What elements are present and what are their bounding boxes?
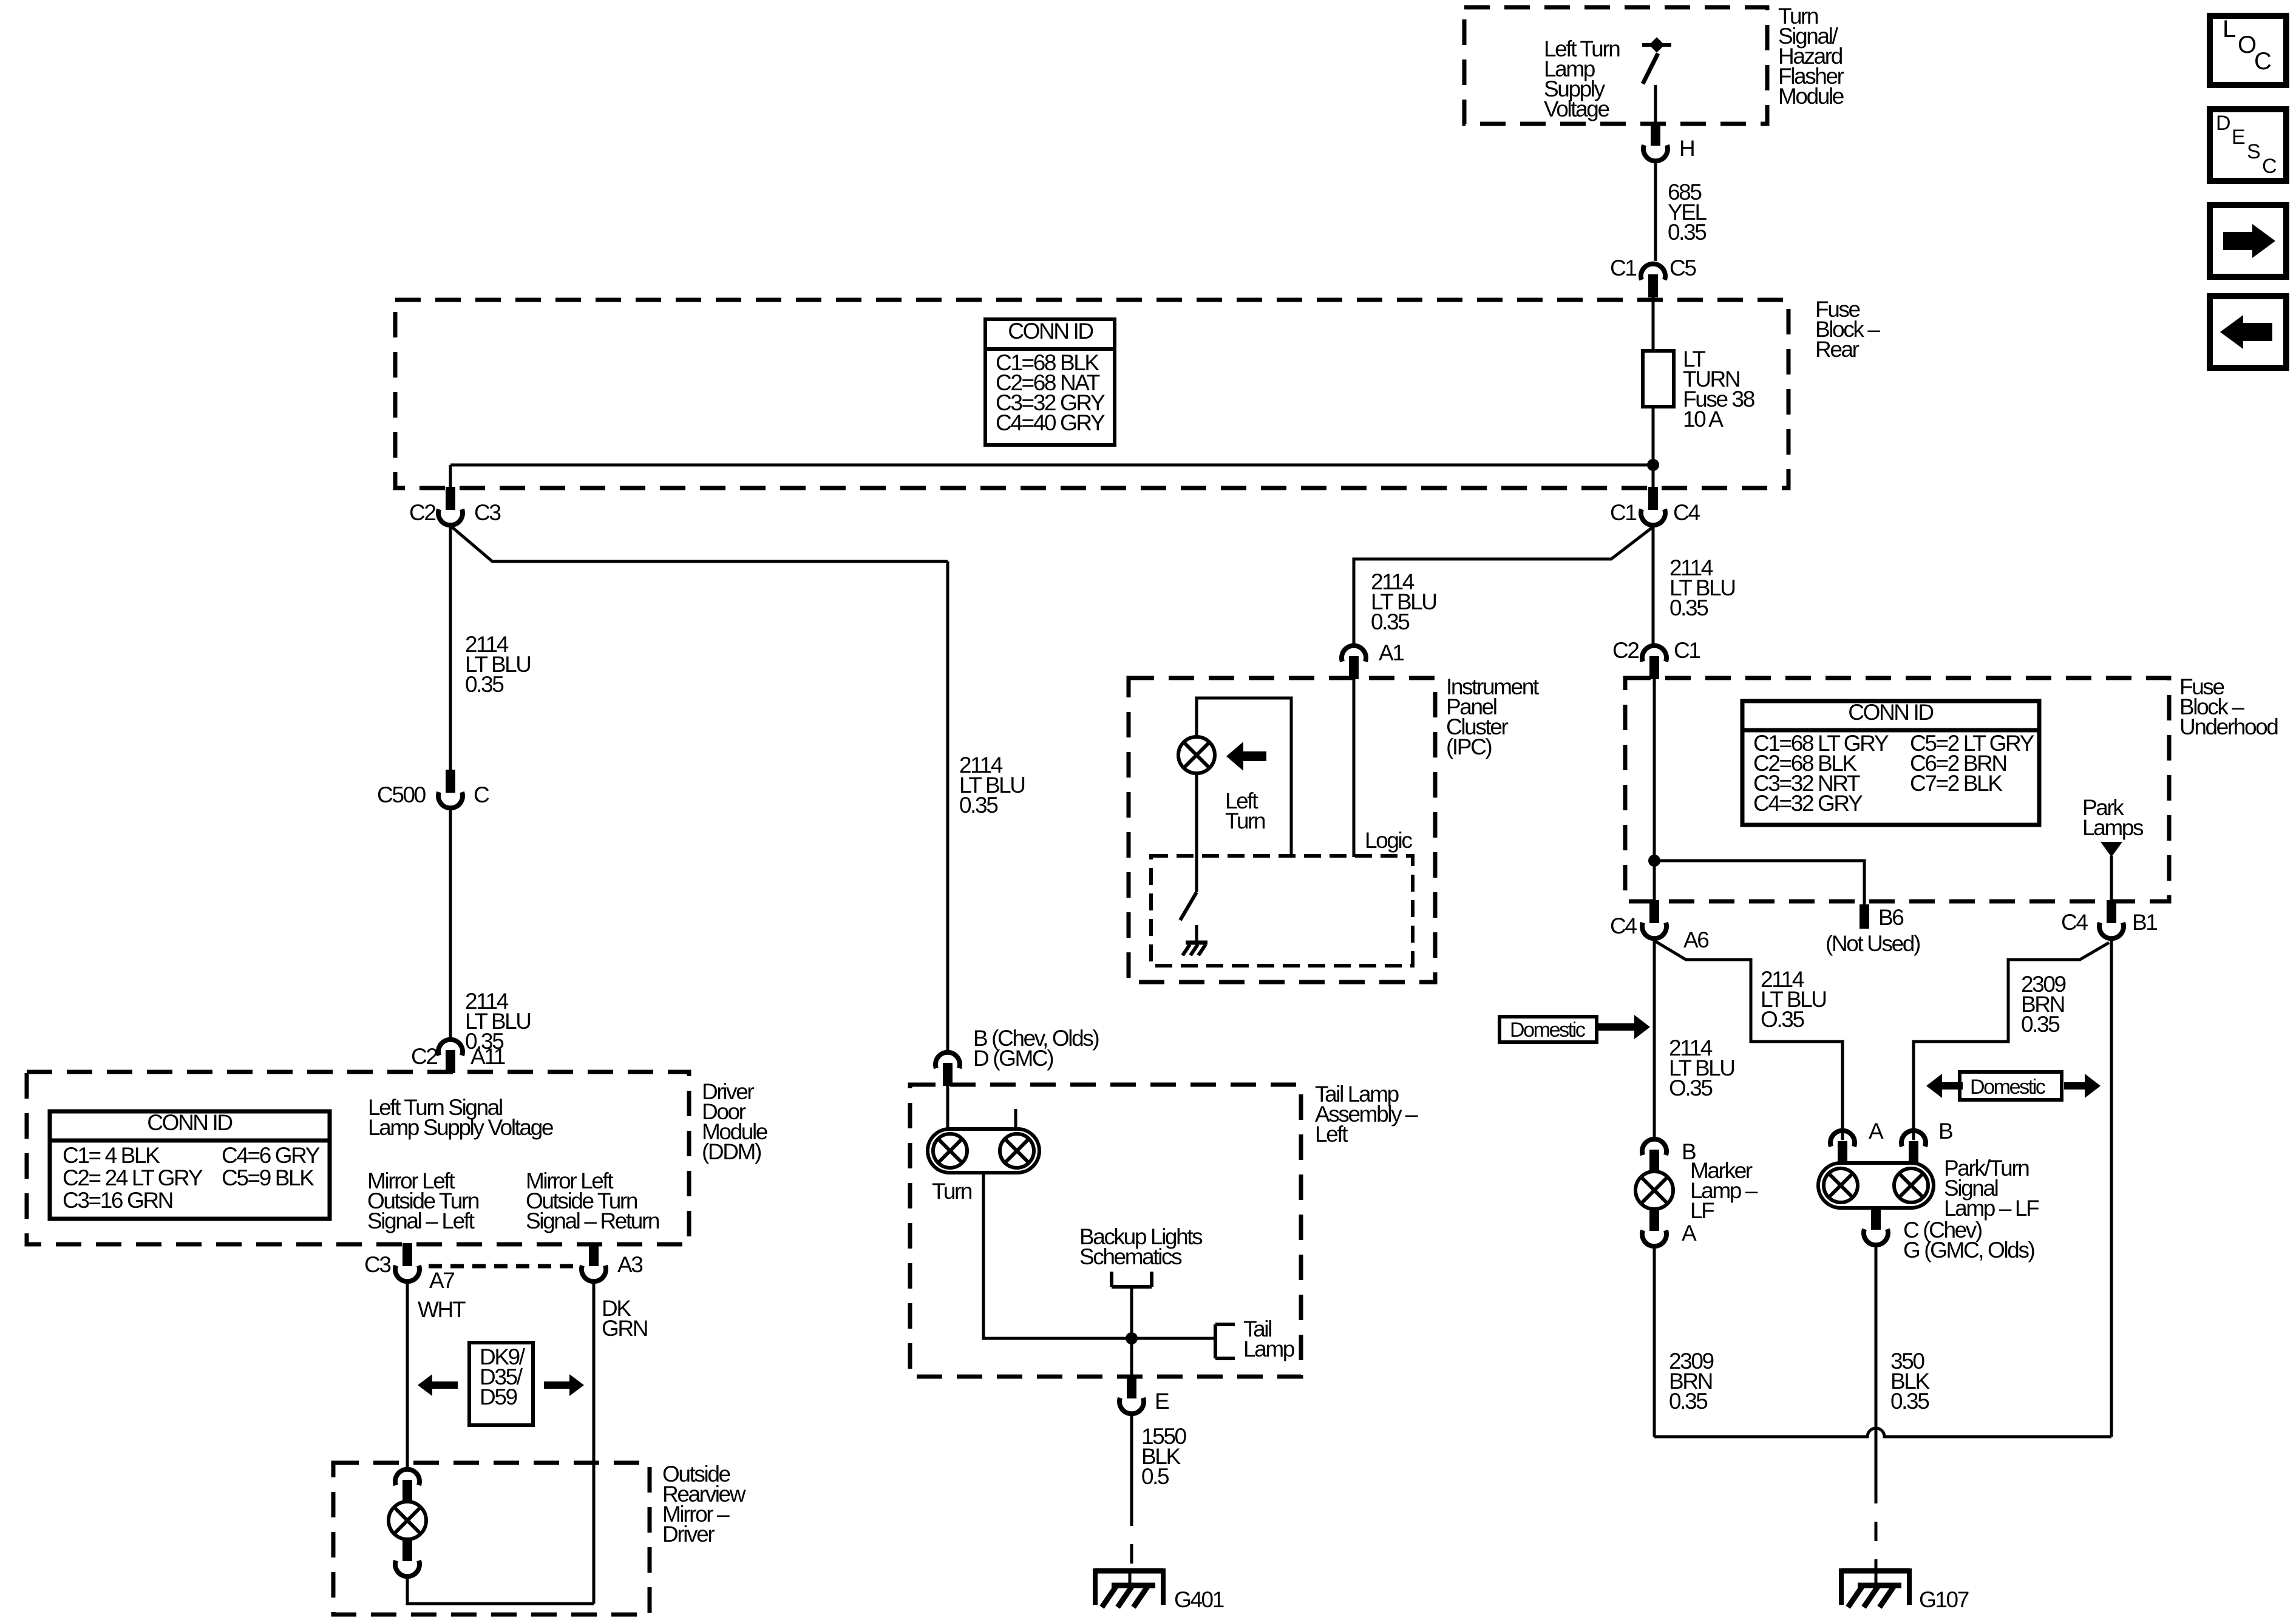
connector: mirror lamp lower (402, 1538, 412, 1561)
wire: park lamps feed down (2110, 856, 2113, 900)
svg-text:Driver: Driver (662, 1522, 715, 1547)
svg-text:0.35: 0.35 (1668, 220, 1707, 245)
wire: internal bus (fuse block rear) (450, 464, 1653, 467)
wire: B1 jog branch to park/turn B (1914, 943, 2109, 1140)
svg-text:C1: C1 (1674, 638, 1700, 663)
svg-text:0.5: 0.5 (1141, 1464, 1169, 1489)
svg-text:(IPC): (IPC) (1446, 734, 1492, 759)
svg-text:O.35: O.35 (1761, 1007, 1804, 1032)
svg-text:0.35: 0.35 (1890, 1389, 1929, 1414)
svg-text:A11: A11 (470, 1044, 505, 1069)
svg-text:G401: G401 (1174, 1587, 1224, 1612)
svg-text:Schematics: Schematics (1079, 1244, 1182, 1269)
svg-text:Logic: Logic (1365, 828, 1412, 853)
connector C4/A6 (underhood left output) (1649, 900, 1659, 923)
svg-text:CONN ID: CONN ID (147, 1110, 232, 1135)
svg-text:CONN ID: CONN ID (1008, 319, 1093, 344)
connector B/D (into Tail Lamp Assembly) (943, 1063, 953, 1086)
svg-text:C4: C4 (2061, 910, 2088, 935)
svg-text:Signal – Left: Signal – Left (367, 1208, 475, 1233)
svg-text:C1: C1 (1610, 256, 1636, 280)
connector A3 (DDM right output) (589, 1243, 599, 1266)
wire: fuse to bus junction (1652, 407, 1655, 489)
wire: B/D to turn lamp (946, 1086, 949, 1130)
symbol: park lamps feed triangle (2101, 842, 2122, 857)
svg-text:C: C (2254, 48, 2271, 75)
svg-text:C1: C1 (1610, 500, 1636, 525)
svg-text:D59: D59 (480, 1384, 517, 1409)
junction: tail lamp ground node (1126, 1332, 1138, 1344)
svg-text:A: A (1869, 1119, 1884, 1144)
table: CONN ID (DDM) (50, 1111, 330, 1219)
lamp: Marker Lamp - LF (1635, 1171, 1673, 1209)
wire: branch to IPC A1 (1354, 527, 1653, 646)
wire: marker lamp to bottom bus (1653, 1248, 1656, 1437)
connector A (marker lamp) (1649, 1208, 1659, 1231)
svg-text:Lamp Supply Voltage: Lamp Supply Voltage (368, 1115, 553, 1140)
wire: A3 DK GRN down to mirror (593, 1283, 596, 1604)
svg-text:A1: A1 (1379, 640, 1404, 665)
svg-text:A3: A3 (617, 1252, 642, 1277)
symbol: backup lights schematics link (1110, 1272, 1113, 1287)
wire: indicator lamp to switch (1195, 772, 1198, 892)
svg-text:C3=16 GRN: C3=16 GRN (63, 1188, 172, 1213)
svg-text:O: O (2238, 32, 2256, 58)
svg-text:B: B (1938, 1119, 1952, 1144)
svg-text:0.35: 0.35 (2021, 1012, 2060, 1037)
connector C3/A7 (DDM left output) (402, 1243, 412, 1266)
svg-text:G (GMC, Olds): G (GMC, Olds) (1903, 1238, 2035, 1262)
svg-text:B6: B6 (1878, 905, 1903, 930)
svg-text:O.35: O.35 (1669, 1076, 1713, 1100)
svg-text:Lamp – LF: Lamp – LF (1944, 1196, 2039, 1221)
svg-text:A: A (1682, 1221, 1697, 1246)
svg-text:C4: C4 (1610, 913, 1637, 938)
module: Fuse Block - Underhood (dashed box) (1625, 678, 2169, 901)
wire 1550 BLK 0.5 (1130, 1415, 1133, 1506)
wire: A6 jog branch to park/turn A (1656, 941, 1843, 1140)
lamp: tail turn lamp (dual filament) (928, 1129, 1039, 1173)
connector A1 (into IPC) (1349, 656, 1359, 679)
stub: unused filament terminal (1014, 1109, 1017, 1130)
arrow: domestic pointer right (2085, 1074, 2101, 1098)
connector B (marker lamp) (1649, 1150, 1659, 1173)
wire 350 BLK 0.35 (1875, 1247, 1878, 1484)
connector C2/C3 (Fuse Block - Rear, left output) (446, 487, 455, 510)
svg-text:0.35: 0.35 (1669, 1389, 1708, 1414)
connector C500/C (in-line) (446, 770, 455, 793)
connector pin H (flasher module) (1651, 123, 1660, 146)
svg-text:Lamp: Lamp (1243, 1337, 1295, 1361)
svg-text:C2= 24 LT GRY: C2= 24 LT GRY (63, 1165, 203, 1190)
ground: IPC internal (1195, 925, 1198, 943)
wire: A7 WHT down to mirror (406, 1283, 409, 1468)
box: DK9/D35/D59 splice reference (469, 1343, 533, 1425)
svg-text:E: E (1155, 1389, 1169, 1414)
nav box: next arrow (2210, 205, 2286, 277)
module: Turn Signal/Hazard Flasher Module (dashed box) (1464, 7, 1767, 124)
lamp: Park/Turn Signal Lamp - LF (dual filament) (1818, 1163, 1934, 1208)
svg-text:Underhood: Underhood (2179, 714, 2278, 739)
svg-text:10 A: 10 A (1683, 407, 1724, 432)
svg-text:Turn: Turn (932, 1179, 972, 1204)
svg-text:Signal – Return: Signal – Return (526, 1208, 659, 1233)
svg-text:0.35: 0.35 (465, 672, 504, 697)
connector C4/B1 (underhood right output) (2107, 900, 2116, 923)
wire: C1/C5 pin to fuse (1652, 297, 1655, 352)
connector: mirror lamp upper (402, 1480, 412, 1503)
svg-text:C3: C3 (364, 1252, 390, 1277)
svg-text:C500: C500 (377, 782, 426, 807)
svg-text:C5=9 BLK: C5=9 BLK (222, 1165, 314, 1190)
connector E (tail lamp ground out) (1127, 1375, 1136, 1398)
svg-text:Left: Left (1315, 1122, 1348, 1147)
wire: A6 straight down to marker lamp (1653, 940, 1656, 1137)
connector B (park/turn lamp) (1909, 1141, 1918, 1164)
svg-text:C1= 4 BLK: C1= 4 BLK (63, 1143, 160, 1168)
svg-text:GRN: GRN (602, 1316, 647, 1341)
wire: C2/C3 down to C500 (449, 526, 452, 770)
wire: ground node to E connector (1130, 1338, 1133, 1377)
arrow: to DK9 left (418, 1374, 432, 1396)
wire: mirror lamp return loop (407, 1578, 594, 1604)
module: Fuse Block - Rear (dashed box) (395, 300, 1788, 488)
svg-text:Domestic: Domestic (1510, 1018, 1586, 1042)
svg-text:C4=32 GRY: C4=32 GRY (1753, 791, 1863, 816)
svg-text:C3: C3 (474, 500, 500, 525)
wire: A1 to logic block (1353, 679, 1356, 857)
wire: bottom ground bus with hop (1654, 1428, 2111, 1437)
dashed wire to G401 (1130, 1506, 1133, 1572)
box: Domestic (right) (1960, 1072, 2062, 1100)
svg-text:CONN ID: CONN ID (1848, 700, 1933, 725)
svg-text:Domestic: Domestic (1970, 1076, 2046, 1099)
svg-text:C2: C2 (409, 500, 435, 525)
module: Instrument Panel Cluster IPC (dashed box) (1129, 678, 1435, 982)
arrow: domestic pointer right (1634, 1015, 1650, 1039)
lamp: mirror turn signal lamp (389, 1502, 426, 1539)
svg-text:H: H (1679, 136, 1694, 161)
svg-text:C2: C2 (411, 1044, 437, 1069)
wire: indicator lamp feed (1197, 698, 1291, 857)
svg-text:(Not Used): (Not Used) (1826, 931, 1920, 956)
svg-text:C5: C5 (1669, 256, 1696, 280)
svg-text:C4: C4 (1673, 500, 1700, 525)
dashed wire to G107 (1875, 1484, 1878, 1573)
svg-text:C4=40 GRY: C4=40 GRY (996, 410, 1105, 435)
switch: flasher output contact (1642, 43, 1671, 47)
wire: bus down to C2/C3 (449, 465, 452, 489)
nav box: DESC (2210, 109, 2286, 181)
svg-text:0.35: 0.35 (959, 793, 998, 818)
svg-text:Turn: Turn (1225, 808, 1265, 833)
arrow: domestic pointer left (1926, 1074, 1942, 1098)
nav box: previous arrow (2210, 296, 2286, 368)
pin B6 (not used) (1860, 904, 1869, 929)
connector A (park/turn lamp) (1838, 1141, 1847, 1164)
fuse F38 LT TURN 10A (1643, 351, 1674, 407)
svg-text:0.35: 0.35 (1371, 609, 1410, 634)
module: Tail Lamp Assembly - Left (dashed box) (910, 1085, 1301, 1377)
connector C2/A11 (into Driver Door Module) (446, 1050, 455, 1073)
connector C/G (park/turn lamp ground) (1871, 1207, 1881, 1230)
svg-text:C2: C2 (1612, 638, 1639, 663)
ground G107 (1875, 1568, 1878, 1587)
svg-text:Rear: Rear (1815, 337, 1860, 362)
connector C1/C5 (into Fuse Block - Rear) (1648, 274, 1658, 297)
junction: underhood node (1648, 855, 1660, 867)
nav box: LOC (2210, 16, 2286, 85)
svg-text:C: C (474, 782, 489, 807)
module: Driver Door Module DDM (dashed box) (27, 1072, 689, 1244)
svg-text:E: E (2232, 126, 2245, 149)
svg-text:Lamps: Lamps (2082, 815, 2144, 840)
svg-text:A7: A7 (429, 1268, 454, 1293)
svg-text:L: L (2223, 16, 2235, 42)
dotted link: C3-A7 to A3 same harness (429, 1264, 574, 1269)
wire: B1 down to bottom bus (2110, 940, 2113, 1437)
svg-text:Module: Module (1778, 84, 1844, 109)
wire: turn lamp to ground bus (983, 1173, 1215, 1338)
svg-text:WHT: WHT (418, 1297, 466, 1322)
junction: fuse output node (1647, 459, 1659, 471)
connector C2/C1 (into Fuse Block - Underhood) (1649, 656, 1659, 679)
wire: C500 to DDM A11 (449, 810, 452, 1039)
svg-text:LF: LF (1690, 1198, 1714, 1223)
svg-text:D (GMC): D (GMC) (973, 1046, 1053, 1071)
svg-text:C7=2 BLK: C7=2 BLK (1910, 771, 2003, 796)
wire: switch to module edge (1654, 85, 1657, 125)
svg-text:C: C (2262, 155, 2277, 178)
wire: branch down to B/D (tail lamp) (946, 561, 949, 1052)
svg-text:0.35: 0.35 (1669, 595, 1708, 620)
svg-text:D: D (2216, 112, 2230, 135)
svg-text:S: S (2247, 140, 2260, 163)
wire 685 YEL 0.35 (flasher to fuse block) (1654, 163, 1657, 261)
wire: C2/C1 through underhood box (1653, 679, 1656, 900)
table: CONN ID (Fuse Block - Rear) (985, 319, 1115, 445)
svg-text:C4=6 GRY: C4=6 GRY (222, 1143, 320, 1168)
arrow: to DK9 right (569, 1374, 584, 1396)
wire: branch diagonal from C2/C3 (452, 527, 948, 561)
ground G401 (1129, 1568, 1132, 1587)
lamp: left turn indicator (1178, 737, 1215, 773)
svg-text:Voltage: Voltage (1544, 97, 1609, 121)
table: CONN ID (Fuse Block - Underhood) (1742, 701, 2039, 825)
svg-text:B1: B1 (2132, 910, 2157, 935)
svg-text:(DDM): (DDM) (702, 1139, 761, 1164)
symbol: tail lamp link bracket (1214, 1324, 1217, 1358)
box: IPC logic (inner dashed) (1151, 856, 1413, 966)
svg-text:A6: A6 (1683, 927, 1708, 952)
wire: C1/C4 to C2/C1 (underhood) (1652, 526, 1655, 645)
box: Domestic (left) (1500, 1017, 1597, 1042)
module: Outside Rearview Mirror - Driver (dashed box) (333, 1463, 650, 1615)
switch: IPC logic driver (1180, 892, 1197, 920)
wire: node to B6 (1654, 861, 1864, 906)
arrow: indicator arrow (left) (1226, 742, 1243, 771)
connector C1/C4 (Fuse Block - Rear, right output) (1648, 487, 1658, 510)
svg-text:G107: G107 (1919, 1587, 1969, 1612)
